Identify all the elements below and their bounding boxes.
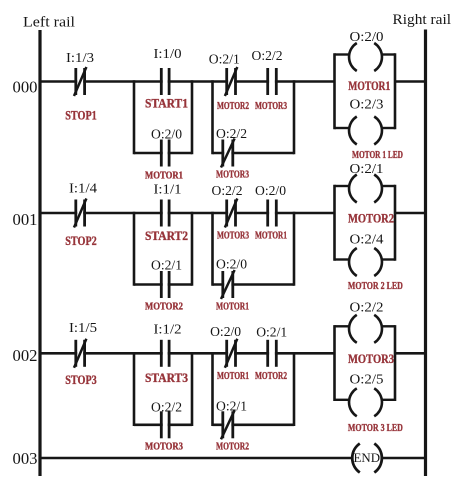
svg-text:START2: START2: [145, 228, 188, 243]
svg-text:O:2/2: O:2/2: [350, 301, 384, 316]
svg-text:O:2/2: O:2/2: [216, 127, 247, 142]
svg-text:MOTOR1: MOTOR1: [216, 302, 249, 313]
svg-text:Left rail: Left rail: [23, 15, 75, 31]
svg-text:MOTOR2: MOTOR2: [145, 302, 183, 313]
svg-text:O:2/2: O:2/2: [252, 49, 283, 64]
svg-text:O:2/1: O:2/1: [216, 400, 247, 415]
svg-text:O:2/1: O:2/1: [350, 162, 384, 177]
svg-text:STOP3: STOP3: [65, 372, 97, 387]
svg-text:MOTOR1: MOTOR1: [255, 231, 287, 242]
svg-text:O:2/1: O:2/1: [209, 53, 240, 68]
svg-text:STOP1: STOP1: [65, 107, 97, 122]
svg-text:MOTOR 3 LED: MOTOR 3 LED: [348, 423, 403, 434]
svg-text:O:2/0: O:2/0: [210, 325, 241, 340]
svg-text:MOTOR1: MOTOR1: [217, 371, 249, 382]
svg-text:MOTOR2: MOTOR2: [216, 442, 249, 453]
svg-text:MOTOR1: MOTOR1: [348, 78, 390, 93]
svg-text:O:2/1: O:2/1: [151, 259, 182, 274]
svg-text:O:2/0: O:2/0: [350, 30, 384, 45]
svg-text:O:2/5: O:2/5: [350, 372, 384, 387]
svg-text:START3: START3: [145, 370, 188, 385]
svg-text:O:2/0: O:2/0: [255, 184, 286, 199]
svg-text:MOTOR3: MOTOR3: [217, 231, 249, 242]
svg-text:O:2/1: O:2/1: [256, 326, 287, 341]
svg-text:O:2/3: O:2/3: [350, 98, 384, 113]
svg-text:STOP2: STOP2: [65, 233, 97, 248]
svg-text:START1: START1: [145, 96, 188, 111]
svg-text:I:1/3: I:1/3: [66, 51, 94, 66]
svg-text:I:1/2: I:1/2: [154, 323, 182, 338]
svg-text:MOTOR2: MOTOR2: [217, 101, 249, 112]
svg-text:002: 002: [13, 346, 38, 365]
svg-text:MOTOR3: MOTOR3: [348, 351, 394, 366]
svg-text:END: END: [354, 450, 381, 465]
svg-text:MOTOR3: MOTOR3: [216, 170, 249, 181]
svg-text:I:1/4: I:1/4: [69, 182, 97, 197]
svg-text:Right rail: Right rail: [393, 12, 452, 28]
svg-text:MOTOR1: MOTOR1: [145, 171, 183, 182]
svg-text:MOTOR2: MOTOR2: [255, 371, 287, 382]
svg-text:001: 001: [13, 210, 38, 229]
svg-text:MOTOR2: MOTOR2: [348, 210, 394, 225]
svg-text:O:2/2: O:2/2: [212, 184, 243, 199]
svg-text:MOTOR 1 LED: MOTOR 1 LED: [352, 150, 403, 161]
svg-text:003: 003: [13, 449, 38, 468]
svg-text:I:1/5: I:1/5: [69, 321, 97, 336]
svg-text:O:2/0: O:2/0: [151, 127, 182, 142]
svg-text:000: 000: [13, 77, 38, 96]
svg-text:I:1/0: I:1/0: [154, 47, 182, 62]
svg-text:O:2/2: O:2/2: [151, 401, 182, 416]
svg-text:MOTOR3: MOTOR3: [255, 101, 287, 112]
svg-text:O:2/4: O:2/4: [350, 232, 384, 247]
svg-text:MOTOR 2 LED: MOTOR 2 LED: [348, 281, 403, 292]
svg-text:I:1/1: I:1/1: [154, 183, 182, 198]
svg-text:O:2/0: O:2/0: [216, 258, 247, 273]
svg-text:MOTOR3: MOTOR3: [145, 442, 183, 453]
